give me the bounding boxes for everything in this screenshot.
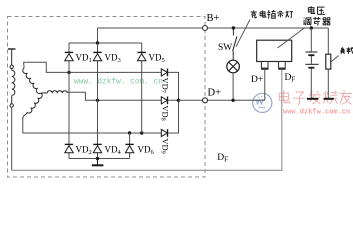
- diode VD7: [161, 69, 167, 77]
- svg-text:www. dzkfw. com. cn: www. dzkfw. com. cn: [74, 78, 163, 86]
- brush / slip ring lower: [10, 104, 13, 107]
- watermark pink brand characters: [279, 91, 352, 105]
- label load (Chinese): [341, 47, 353, 53]
- wire D+ rail: [179, 99, 265, 101]
- callout line to regulator: [278, 28, 306, 49]
- wire column1: [68, 43, 70, 159]
- ground symbol bridge: [92, 159, 104, 166]
- node ground: [96, 157, 99, 160]
- diode VD4: [93, 144, 101, 152]
- svg-text:SW: SW: [218, 43, 232, 53]
- callout line to load: [331, 56, 339, 63]
- resistor load: [326, 54, 331, 69]
- node phase1/column1: [67, 71, 70, 74]
- wire B+ riser: [97, 28, 99, 43]
- ground symbol battery: [307, 98, 318, 100]
- node lamp/D+: [231, 99, 234, 102]
- label voltage regulator line2 (Chinese): [304, 17, 330, 25]
- label voltage regulator line1 (Chinese): [308, 6, 325, 14]
- wire load top: [327, 28, 329, 54]
- wire top bridge cathode line: [69, 42, 142, 44]
- lamp charge indicator: [227, 60, 240, 73]
- terminal B+: [203, 26, 208, 31]
- diode VD1: [65, 52, 73, 60]
- dashed alternator enclosure box: [8, 17, 206, 178]
- wire battery bottom: [310, 69, 312, 99]
- svg-text:B+: B+: [207, 13, 220, 24]
- wire lamp to D+ rail: [232, 73, 234, 100]
- diode VD5: [138, 52, 146, 60]
- wire rotor bottom down: [11, 107, 13, 170]
- label charge indicator lamp (Chinese): [251, 10, 293, 18]
- diode VD8: [161, 97, 167, 105]
- stator middle phase coil: [41, 91, 67, 93]
- node top line / riser: [96, 41, 99, 44]
- wire phase2: [67, 92, 162, 100]
- wire phase3: [23, 119, 162, 133]
- node SW branch on B+: [232, 26, 235, 29]
- wire regulator D+ pin down: [264, 70, 266, 100]
- node phase3/VD5 column: [140, 131, 143, 134]
- wire column3 (VD5): [141, 43, 143, 133]
- svg-text:DF: DF: [285, 73, 296, 84]
- stator star winding: upper phase coil: [23, 68, 41, 93]
- node phase3/VD6 column: [128, 131, 131, 134]
- rotor field winding ground (bar at top): [8, 49, 15, 65]
- watermark blue logo: [253, 93, 272, 112]
- svg-text:D+: D+: [251, 75, 263, 85]
- stator lower phase coil: [23, 93, 42, 119]
- regulator pin D+: [261, 62, 268, 69]
- switch SW: [233, 28, 237, 60]
- ground symbol load: [324, 98, 334, 100]
- svg-text:www.dzkfw.com.cn: www.dzkfw.com.cn: [283, 109, 350, 117]
- node D+ bus: [177, 99, 180, 102]
- wire bridge ground line: [69, 158, 130, 160]
- wire phase1 jog: [24, 62, 162, 72]
- battery GB: [305, 52, 318, 68]
- wire battery top: [310, 28, 312, 51]
- svg-text:DF: DF: [217, 153, 228, 164]
- terminal D+: [203, 98, 208, 103]
- wire VD6 column: [129, 133, 131, 159]
- wire B+ rail: [98, 27, 329, 29]
- diode VD9: [161, 129, 167, 137]
- rotor field coil: [12, 69, 15, 104]
- voltage regulator box U1: [257, 40, 292, 61]
- wire regulator DF pin down and left (field loop): [12, 70, 282, 170]
- diode VD2: [65, 144, 73, 152]
- callout line to lamp: [236, 20, 250, 47]
- diode VD3: [93, 52, 101, 60]
- wire column2: [97, 43, 99, 159]
- diode VD6: [125, 144, 133, 152]
- wire load bottom: [327, 69, 329, 98]
- regulator pin DF: [278, 62, 285, 69]
- svg-text:D+: D+: [208, 88, 222, 99]
- node battery on B+: [310, 26, 313, 29]
- wire trio outputs to D+ bus: [168, 72, 179, 133]
- brush / slip ring upper: [10, 65, 13, 68]
- node phase2/column2: [96, 99, 99, 102]
